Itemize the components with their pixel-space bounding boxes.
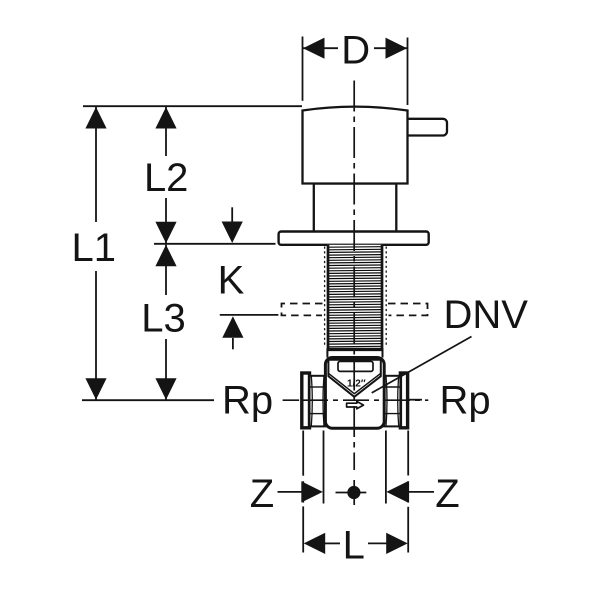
valve left end cap xyxy=(302,373,310,428)
dimension Z right xyxy=(386,472,459,516)
shield pentagon xyxy=(328,360,380,397)
top extension line xyxy=(83,105,302,107)
collar below thread xyxy=(326,348,328,357)
valve left hex nut xyxy=(310,376,326,427)
valve right end cap xyxy=(400,373,407,428)
svg-text:Rp: Rp xyxy=(440,379,491,423)
wall dashed band right xyxy=(388,304,428,316)
vertical center line xyxy=(353,81,355,471)
dimension L3 xyxy=(141,245,191,400)
svg-text:DNV: DNV xyxy=(444,293,529,337)
handle tab xyxy=(404,119,447,136)
line valve to right Rp xyxy=(408,399,423,401)
middle extension line (flange bottom) xyxy=(154,243,276,245)
dimension K top arrow xyxy=(222,207,243,243)
svg-text:D: D xyxy=(341,28,370,72)
dimension L xyxy=(304,524,408,568)
bottom-left extension line (Rp level) xyxy=(82,399,214,401)
shield window xyxy=(338,361,373,371)
neck xyxy=(314,184,397,233)
svg-text:Z: Z xyxy=(250,472,274,516)
thread bottom heavy band xyxy=(327,348,383,351)
dimension D xyxy=(303,28,408,105)
wall dashed band left xyxy=(282,304,323,316)
K bottom extension line xyxy=(220,314,279,316)
center dot xyxy=(347,486,360,499)
threaded tube xyxy=(325,245,387,358)
valve center body xyxy=(325,358,384,429)
head xyxy=(303,107,408,184)
flow arrow xyxy=(347,401,364,408)
dimension Z left xyxy=(250,472,323,516)
DNV leader line xyxy=(372,337,472,393)
Z/L extension lines below valve xyxy=(302,431,304,553)
dimension L1 xyxy=(70,107,120,400)
svg-text:K: K xyxy=(218,259,245,303)
svg-text:L2: L2 xyxy=(144,156,189,200)
svg-text:Rp: Rp xyxy=(222,379,273,423)
svg-text:1/2″: 1/2″ xyxy=(347,379,366,390)
horizontal center line xyxy=(283,399,429,401)
svg-text:L1: L1 xyxy=(72,226,117,270)
valve right hex nut xyxy=(384,376,400,427)
svg-text:L3: L3 xyxy=(141,297,186,341)
flange xyxy=(279,232,429,245)
thread crest dashed line left xyxy=(324,247,326,348)
dimension L2 xyxy=(141,107,191,243)
thread crest dashed line right xyxy=(385,247,387,348)
svg-text:L: L xyxy=(343,524,365,568)
svg-text:Z: Z xyxy=(435,472,459,516)
dimension K bottom arrow xyxy=(222,316,243,349)
